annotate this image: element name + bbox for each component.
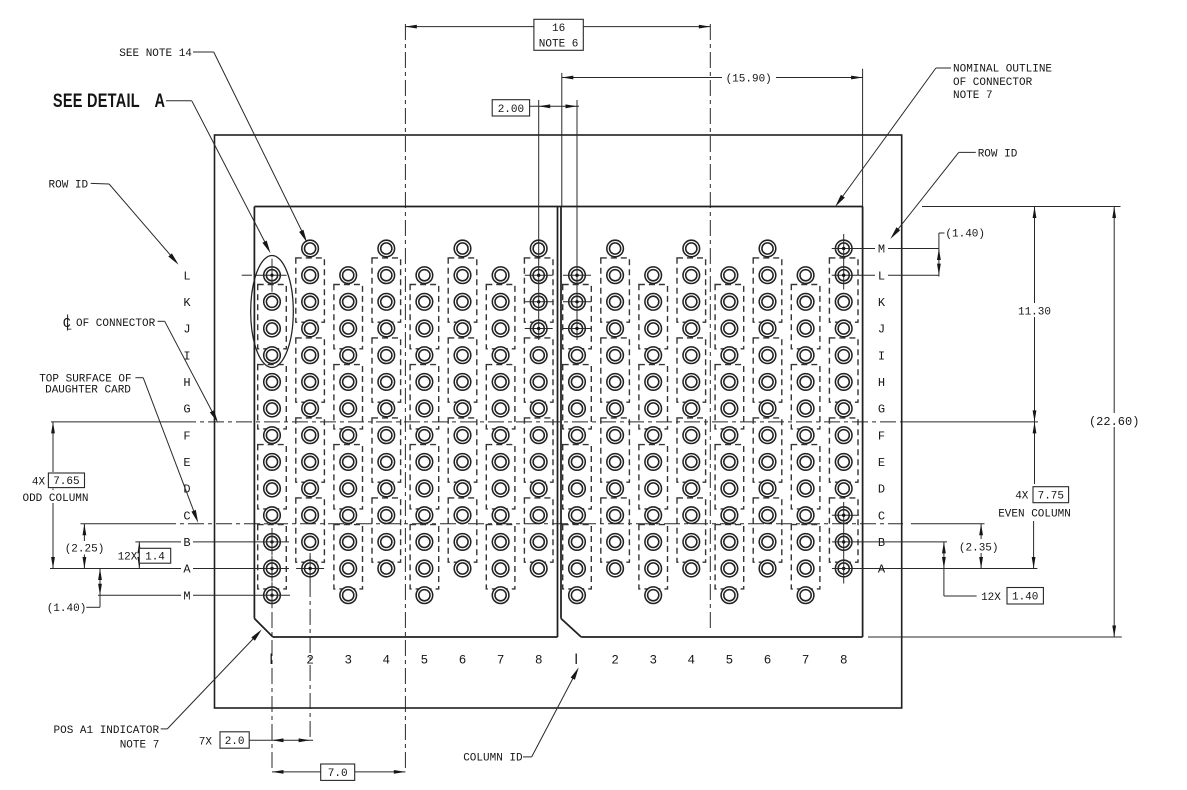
- detail A ellipse around pins L1-I1: [251, 256, 294, 368]
- pin column 5 right half: [721, 267, 738, 284]
- dimension 4X 7.65 ODD COLUMN centerline to row A left: [52, 422, 54, 569]
- connector outline left edge: [253, 207, 255, 619]
- row ID letters right side: [875, 242, 888, 255]
- svg-text:NOTE 7: NOTE 7: [120, 740, 160, 752]
- connector pos A1 chamfer left half: [254, 619, 273, 638]
- svg-text:F: F: [878, 429, 885, 443]
- svg-text:(2.35): (2.35): [959, 543, 999, 555]
- svg-text:2.0: 2.0: [225, 736, 245, 748]
- dashed wafer boxes column 2 left half: [296, 258, 325, 322]
- dashed wafer boxes column 4 right half: [677, 258, 706, 322]
- svg-text:L: L: [183, 269, 190, 283]
- row line B right side: [832, 541, 947, 543]
- pin column 4 right half: [683, 240, 700, 257]
- extension line connector top to (22.60) dim: [922, 206, 1121, 208]
- row ID letters left side: [181, 269, 193, 282]
- svg-text:5: 5: [421, 654, 429, 668]
- svg-text:2: 2: [611, 654, 619, 668]
- center wall line left: [557, 207, 559, 638]
- dashed wafer boxes column 5 right half: [715, 285, 744, 349]
- svg-text:K: K: [878, 296, 886, 310]
- svg-text:(1.40): (1.40): [47, 603, 87, 615]
- svg-text:SEE DETAIL: SEE DETAIL: [53, 89, 140, 112]
- dimension (1.40) rows M to L right side: [938, 233, 940, 277]
- vertical centerline of left connector half (dash-dot): [404, 24, 406, 772]
- pin column 4 left half: [378, 240, 395, 257]
- svg-text:4X: 4X: [1015, 491, 1029, 503]
- dimension 12X 1.40 row pitch right: [943, 542, 945, 596]
- center wall line right: [560, 207, 562, 619]
- svg-text:K: K: [183, 296, 191, 310]
- dashed wafer boxes column 5 left half: [410, 285, 439, 349]
- svg-text:J: J: [183, 323, 190, 337]
- column 1 left centerline (dash-dot): [271, 528, 273, 772]
- dashed wafer boxes column 3 left half: [334, 285, 363, 349]
- dimension 16 NOTE 6 between half centerlines: [405, 26, 710, 28]
- svg-text:1.4: 1.4: [145, 552, 165, 564]
- column ID numbers left half: [270, 654, 272, 665]
- svg-text:(22.60): (22.60): [1089, 415, 1139, 429]
- connector outline right edge: [862, 207, 864, 638]
- label SEE DETAIL A with leader: [53, 89, 165, 112]
- svg-text:ROW ID: ROW ID: [49, 179, 89, 191]
- dimension 11.30 top to centerline: [1034, 207, 1036, 422]
- connector outline top edge: [254, 206, 862, 208]
- svg-text:7: 7: [497, 654, 505, 668]
- row line A right side: [832, 568, 1038, 570]
- crosshair pins C B A column 8 right: [843, 502, 845, 584]
- svg-text:B: B: [183, 536, 190, 550]
- svg-text:NOTE 7: NOTE 7: [953, 90, 993, 102]
- svg-text:E: E: [878, 456, 885, 470]
- svg-text:12X: 12X: [981, 592, 1001, 604]
- svg-text:A: A: [878, 563, 886, 577]
- pin column 8 right half: [835, 240, 852, 257]
- svg-text:OF CONNECTOR: OF CONNECTOR: [953, 77, 1033, 89]
- pin column 5 left half: [416, 267, 433, 284]
- dashed wafer boxes column 4 left half: [372, 258, 401, 322]
- dashed wafer boxes column 8 right half: [829, 258, 858, 322]
- svg-text:L: L: [66, 322, 72, 334]
- svg-text:A: A: [183, 563, 191, 577]
- svg-text:(15.90): (15.90): [726, 74, 772, 86]
- svg-text:DAUGHTER CARD: DAUGHTER CARD: [45, 384, 131, 396]
- svg-text:1.40: 1.40: [1012, 591, 1038, 603]
- svg-text:E: E: [183, 456, 190, 470]
- pin column 6 right half: [759, 240, 776, 257]
- svg-text:(1.40): (1.40): [945, 229, 985, 241]
- svg-text:8: 8: [535, 654, 543, 668]
- outer board rectangle: [215, 135, 902, 708]
- crosshair pins M L column 8 right: [843, 234, 845, 290]
- dashed wafer boxes column 1 right half: [563, 285, 592, 349]
- svg-text:F: F: [183, 429, 190, 443]
- svg-text:D: D: [878, 483, 885, 497]
- svg-text:POS A1 INDICATOR: POS A1 INDICATOR: [54, 725, 160, 737]
- pin column 7 left half: [492, 267, 509, 284]
- svg-text:OF CONNECTOR: OF CONNECTOR: [76, 318, 156, 330]
- extension line connector bottom to (22.60) dim: [868, 636, 1122, 638]
- svg-text:I: I: [183, 349, 190, 363]
- svg-text:16: 16: [552, 23, 565, 35]
- connector pos A1 chamfer right half: [561, 619, 581, 638]
- dimension (2.25) top surface to row A left: [83, 524, 85, 569]
- dimension (1.40) rows A to M bottom left: [99, 569, 101, 608]
- vertical centerline of right connector half (dash-dot): [709, 24, 711, 630]
- crosshair pins L K J column 1 right: [563, 274, 591, 276]
- crosshair pins M L K J column 8 left: [525, 274, 553, 276]
- extension line connector right edge for (15.90) dim: [862, 69, 864, 207]
- svg-text:C: C: [878, 509, 885, 523]
- connector bottom edge left half: [273, 636, 558, 638]
- pin column 2 right half: [607, 240, 624, 257]
- dimension 4X 7.75 EVEN COLUMN centerline to row A: [1034, 422, 1036, 484]
- pin column 2 left half: [302, 240, 319, 257]
- svg-text:J: J: [878, 323, 885, 337]
- svg-text:7.0: 7.0: [328, 768, 348, 780]
- svg-text:2.00: 2.00: [498, 104, 524, 116]
- crosshair verticals through pins B1 A1 M1: [271, 529, 273, 555]
- svg-text:(2.25): (2.25): [65, 544, 105, 556]
- svg-text:C: C: [183, 509, 190, 523]
- svg-text:L: L: [878, 269, 885, 283]
- column 2 left centerline (dash-dot): [309, 553, 311, 740]
- svg-text:G: G: [183, 403, 190, 417]
- dashed wafer boxes column 6 left half: [448, 258, 477, 322]
- svg-text:NOTE 6: NOTE 6: [539, 39, 579, 51]
- svg-text:4X: 4X: [32, 477, 46, 489]
- horizontal centerline of connector (dash-dot): [51, 421, 180, 423]
- svg-text:A: A: [155, 89, 165, 112]
- row line M left with crosshair pin M1: [98, 594, 181, 596]
- dashed wafer boxes column 1 left half: [258, 285, 287, 349]
- dashed wafer boxes column 7 left half: [486, 285, 515, 349]
- svg-text:6: 6: [459, 654, 467, 668]
- row line A left with crosshair pin A1: [50, 568, 181, 570]
- svg-text:11.30: 11.30: [1018, 307, 1051, 319]
- dimension 12X 1.4 row pitch left: [138, 542, 140, 569]
- svg-text:I: I: [878, 349, 885, 363]
- svg-text:B: B: [878, 536, 885, 550]
- svg-text:COLUMN ID: COLUMN ID: [463, 753, 523, 765]
- svg-text:M: M: [183, 589, 190, 603]
- svg-text:3: 3: [649, 654, 657, 668]
- svg-text:4: 4: [688, 654, 696, 668]
- svg-text:3: 3: [344, 654, 352, 668]
- dashed wafer boxes column 6 right half: [753, 258, 782, 322]
- pin column 1 right half: [569, 267, 586, 284]
- svg-text:EVEN COLUMN: EVEN COLUMN: [998, 509, 1071, 521]
- pin column 6 left half: [454, 240, 471, 257]
- svg-text:SEE NOTE 14: SEE NOTE 14: [119, 48, 192, 60]
- svg-text:8: 8: [840, 654, 848, 668]
- pin column 3 left half: [340, 267, 357, 284]
- dimension 2.00 column 8 left to column 1 right: [492, 100, 529, 116]
- dimension (15.90) wall to right edge: [562, 77, 863, 79]
- extension line wall for (15.90) dim: [561, 73, 563, 207]
- extension line column 1 right for 2.00 dim: [576, 100, 578, 340]
- pin column 8 left half: [530, 240, 547, 257]
- svg-text:M: M: [878, 243, 885, 257]
- extension line column 8 left for 2.00 dim: [538, 100, 540, 340]
- svg-text:G: G: [878, 403, 885, 417]
- svg-text:7: 7: [802, 654, 810, 668]
- svg-text:7.75: 7.75: [1038, 490, 1064, 502]
- dimension (22.60) overall height: [1113, 207, 1115, 638]
- svg-text:ROW ID: ROW ID: [978, 148, 1018, 160]
- svg-text:4: 4: [383, 654, 391, 668]
- pin column 7 right half: [797, 267, 814, 284]
- top surface of daughter card line (dash-dot): [81, 523, 161, 525]
- dashed wafer boxes column 2 right half: [601, 258, 630, 322]
- pin column 1 left half: [264, 267, 281, 284]
- svg-text:12X: 12X: [118, 552, 138, 564]
- dashed wafer boxes column 3 right half: [639, 285, 668, 349]
- pin L1 left with crosshair (detail A): [242, 274, 252, 276]
- dimension (2.35) top surface to row A right: [980, 524, 982, 569]
- svg-text:H: H: [878, 376, 885, 390]
- svg-text:6: 6: [764, 654, 772, 668]
- dashed wafer boxes column 7 right half: [791, 285, 820, 349]
- dashed wafer boxes column 8 left half: [524, 258, 553, 322]
- column ID numbers right half: [575, 654, 577, 665]
- svg-text:7.65: 7.65: [53, 476, 79, 488]
- svg-text:H: H: [183, 376, 190, 390]
- dimension 7.0 column 1 to centerline: [272, 771, 405, 773]
- svg-text:7X: 7X: [199, 736, 213, 748]
- crosshair pin A2 left: [309, 556, 311, 582]
- connector bottom edge right half: [581, 636, 862, 638]
- svg-text:2: 2: [306, 654, 314, 668]
- svg-text:5: 5: [726, 654, 734, 668]
- svg-text:ODD COLUMN: ODD COLUMN: [22, 493, 88, 505]
- pin column 3 right half: [645, 267, 662, 284]
- svg-text:NOMINAL OUTLINE: NOMINAL OUTLINE: [953, 64, 1052, 76]
- row line B left with crosshair pin B1: [135, 541, 181, 543]
